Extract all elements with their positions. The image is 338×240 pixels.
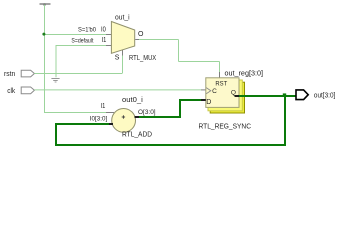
ground symbol GND (const 0): [51, 79, 59, 83]
svg-text:D: D: [206, 99, 211, 106]
wire mux I1 horizontal y=45: [56, 45, 107, 47]
bus feedback vertical left x=56: [55, 123, 57, 146]
register out_reg[3:0] RTL_REG_SYNC (stacked): [199, 71, 264, 131]
wire rstn to mux S : horizontal y=73 then up x=122: [34, 73, 122, 75]
output port out[3:0]: [296, 90, 335, 100]
bus horizontal y=100 to register D: [179, 99, 201, 101]
pin stub O mux (gray): [135, 39, 139, 41]
bus register Q output y=96: [239, 95, 296, 97]
bus feedback bottom y=145: [55, 144, 286, 146]
svg-text:I1: I1: [102, 37, 107, 44]
pin stub I0 (dark): [109, 123, 113, 125]
wire vertical x=178.5 down to y=61: [178, 40, 180, 62]
pin stub I1 mux (gray): [106, 45, 112, 47]
svg-text:I0[3:0]: I0[3:0]: [90, 116, 108, 123]
svg-text:RTL_ADD: RTL_ADD: [122, 131, 152, 138]
svg-text:out_i: out_i: [115, 15, 130, 22]
front layer: [206, 78, 239, 108]
pin stub I0 mux (gray): [106, 34, 112, 36]
wire horizontal y=61 to x=219.5: [179, 61, 220, 63]
bus feedback vertical right x=285: [284, 95, 286, 146]
wire mux I0 horizontal y=34: [44, 34, 106, 36]
svg-text:C: C: [212, 88, 217, 95]
pin stub D (dark): [201, 99, 206, 101]
svg-text:S=default: S=default: [71, 38, 93, 44]
svg-text:S=1'b0: S=1'b0: [78, 28, 97, 34]
wire adder I1 horizontal y=112: [44, 112, 106, 114]
power symbol VCC (const) top bar: [40, 4, 51, 6]
wire mux O output y=39 to corner x=178.5: [139, 39, 179, 41]
bus vertical x=180 up to y=100: [179, 99, 181, 118]
wire clk to register C pin: [34, 89, 201, 91]
svg-text:out0_i: out0_i: [122, 97, 143, 104]
svg-text:I1: I1: [101, 103, 106, 110]
bus adder O output y=117: [139, 116, 181, 118]
svg-text:RST: RST: [215, 81, 227, 87]
pin stub C (gray): [201, 89, 206, 91]
bus adder I0 input y=124: [55, 123, 109, 125]
back layer: [210, 82, 244, 113]
input port clk: [7, 87, 34, 95]
middle layer: [208, 80, 242, 111]
pin stub S mux (gray): [122, 50, 124, 56]
wire const vertical x=44 from power bar down to adder I1 corner: [44, 5, 46, 113]
pin stub I1 adder (gray): [106, 112, 114, 114]
svg-text:out[3:0]: out[3:0]: [314, 91, 335, 100]
pin stub O adder (dark): [135, 116, 140, 118]
svg-text:S: S: [115, 54, 120, 61]
svg-text:rstn: rstn: [4, 71, 15, 78]
svg-text:out_reg[3:0]: out_reg[3:0]: [225, 71, 264, 78]
wire gnd vertical x=56 from mux I1 wire down to ground: [55, 45, 57, 77]
junction Q net: [283, 93, 286, 96]
pin stub Q (dark) inside box: [235, 95, 240, 97]
svg-text:clk: clk: [7, 88, 15, 95]
input port rstn: [4, 70, 34, 78]
svg-text:RTL_REG_SYNC: RTL_REG_SYNC: [199, 123, 252, 130]
clock triangle: [206, 88, 211, 94]
svg-text:RTL_MUX: RTL_MUX: [129, 55, 156, 62]
mux U out_i RTL_MUX body: [111, 15, 156, 62]
svg-text:O: O: [138, 31, 144, 38]
svg-text:I0: I0: [101, 27, 106, 34]
junction const net to mux I0: [42, 33, 45, 36]
wire vertical x=219.5 down to register RST: [219, 62, 221, 73]
pin stub RST (gray): [219, 72, 221, 78]
svg-text:O[3:0]: O[3:0]: [138, 109, 156, 116]
adder out0_i RTL_ADD: [112, 97, 152, 139]
